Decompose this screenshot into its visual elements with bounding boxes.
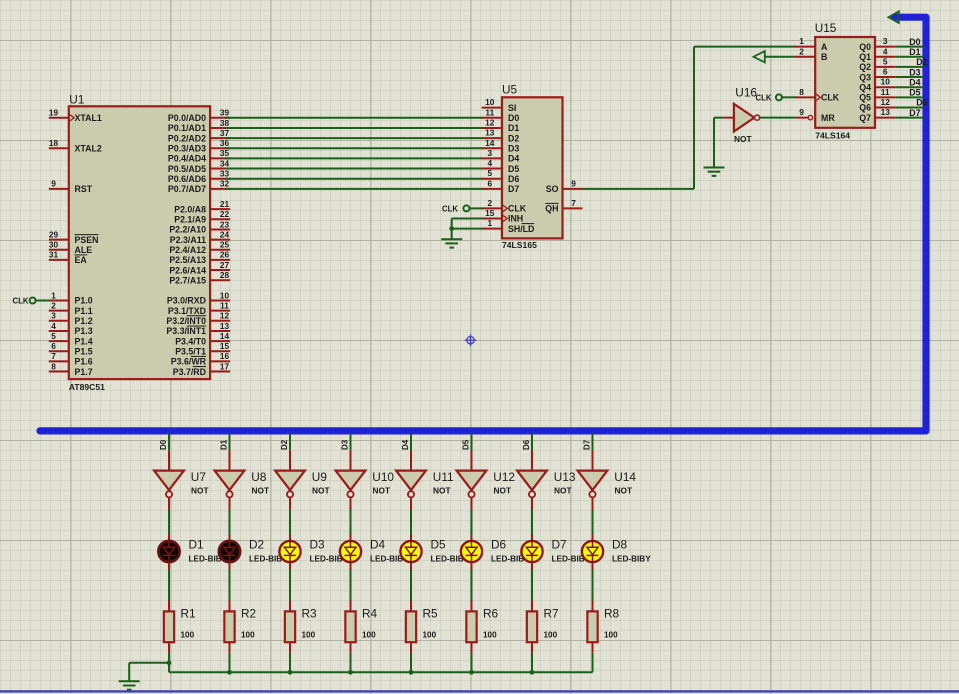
wire U1 P0.6 to U5 D6: [225, 178, 483, 180]
U15 pin 13 Q7 stub: [875, 117, 895, 119]
svg-text:100: 100: [544, 630, 558, 639]
svg-text:D0: D0: [508, 113, 519, 123]
U1 pin 23 P2.2/A10 stub: [210, 228, 230, 230]
svg-text:P3.3/INT1: P3.3/INT1: [166, 326, 206, 336]
ground below U16: [704, 167, 725, 169]
junction R1: [167, 660, 172, 665]
wire resistor R3 to ground rail: [289, 642, 291, 653]
U1 pin 14 P3.4/T0 stub: [210, 340, 230, 342]
svg-text:R2: R2: [241, 607, 256, 621]
svg-text:8: 8: [51, 361, 56, 371]
junction at SH/LD wire: [449, 226, 454, 231]
U1 pin 6 P1.5 stub: [49, 350, 69, 352]
gate U14 NOT triangle: [578, 471, 608, 491]
wire gate U8 to LED D2: [229, 498, 231, 510]
svg-text:3: 3: [51, 311, 56, 321]
svg-text:P3.2/INT0: P3.2/INT0: [166, 316, 206, 326]
svg-text:11: 11: [220, 300, 229, 310]
svg-text:NOT: NOT: [312, 486, 330, 496]
svg-text:D3: D3: [909, 67, 920, 77]
wire CLK terminal to U5 CLK: [469, 207, 482, 209]
svg-text:R8: R8: [604, 607, 620, 621]
svg-text:D8: D8: [612, 537, 628, 551]
chip U5 74LS165 body: [502, 97, 563, 238]
svg-text:33: 33: [220, 169, 230, 179]
U16 output bubble: [755, 115, 760, 120]
svg-text:22: 22: [220, 209, 230, 219]
svg-text:CLK: CLK: [755, 94, 771, 103]
svg-text:15: 15: [220, 341, 230, 351]
ground rail wire: [129, 662, 169, 664]
U1 pin 28 P2.7/A15 stub: [210, 279, 230, 281]
svg-text:AT89C51: AT89C51: [69, 382, 105, 392]
gate U13 NOT triangle: [517, 471, 547, 491]
svg-text:U1: U1: [69, 93, 84, 107]
LED D3 body: [279, 541, 300, 562]
U1 pin 33 P0.6/AD6 stub: [210, 178, 230, 180]
wire Q6 to bus: [895, 107, 923, 109]
svg-text:13: 13: [881, 107, 891, 117]
wire gate U9 to LED D3: [289, 498, 291, 510]
wire gate U10 to LED D4: [350, 498, 352, 510]
svg-text:P0.5/AD5: P0.5/AD5: [168, 164, 206, 174]
U13 output bubble: [529, 491, 535, 497]
U9 output bubble: [287, 491, 293, 497]
wire LED D2 to resistor R2: [229, 563, 231, 570]
svg-text:U5: U5: [502, 83, 518, 97]
svg-text:XTAL1: XTAL1: [75, 113, 102, 123]
ground below U5: [441, 238, 462, 240]
U14 output bubble: [589, 491, 595, 497]
gate U12 NOT triangle: [457, 471, 487, 491]
LED D4 body: [340, 541, 361, 562]
svg-text:10: 10: [220, 290, 230, 300]
U1 pin 38 P0.1/AD1 stub: [210, 127, 230, 129]
wire Q2 to bus: [895, 66, 923, 68]
svg-text:36: 36: [220, 138, 230, 148]
U1 pin 13 P3.3/INT1 stub: [210, 330, 230, 332]
U1 pin 4 P1.3 stub: [49, 330, 69, 332]
svg-text:D7: D7: [508, 184, 519, 194]
U15 pin 11 Q5 stub: [875, 96, 895, 98]
svg-text:P3.0/RXD: P3.0/RXD: [167, 296, 206, 306]
wire resistor R8 to ground rail: [592, 642, 594, 653]
svg-text:26: 26: [220, 250, 230, 260]
svg-text:P1.7: P1.7: [75, 367, 93, 377]
svg-text:25: 25: [220, 240, 230, 250]
svg-text:INH: INH: [508, 214, 523, 224]
svg-text:P2.4/A12: P2.4/A12: [169, 245, 206, 255]
svg-text:U8: U8: [251, 470, 267, 484]
svg-text:D6: D6: [491, 537, 507, 551]
LED D4 diode symbol: [345, 540, 357, 563]
svg-text:D6: D6: [522, 439, 531, 450]
svg-text:D5: D5: [431, 537, 447, 551]
U5 pin 5 D6 stub: [482, 178, 502, 180]
wire gate U12 to LED D6: [471, 498, 473, 510]
svg-text:D7: D7: [582, 439, 591, 450]
svg-text:2: 2: [51, 300, 56, 310]
chip U15 74LS164 body: [815, 37, 875, 128]
wire U5 SH/LD to ground: [452, 228, 483, 230]
svg-text:7: 7: [51, 351, 56, 361]
wire U5 INH to ground: [452, 218, 483, 220]
svg-text:P1.6: P1.6: [75, 357, 93, 367]
U12 output bubble: [468, 491, 474, 497]
svg-text:1: 1: [799, 36, 804, 46]
svg-text:74LS164: 74LS164: [815, 130, 850, 140]
U1 pin 9 RST stub: [49, 188, 69, 190]
svg-text:MR: MR: [821, 113, 835, 123]
svg-text:P2.7/A15: P2.7/A15: [169, 275, 206, 285]
wire bus tap D1 down to gate U8: [229, 433, 231, 450]
U15 pin 3 Q0 stub: [875, 46, 895, 48]
svg-text:D0: D0: [909, 37, 920, 47]
svg-text:24: 24: [220, 229, 230, 239]
U5 INH clock marker: [503, 215, 507, 221]
wire resistor R6 to ground rail: [471, 642, 473, 653]
svg-text:100: 100: [423, 630, 437, 639]
svg-text:2: 2: [799, 46, 804, 56]
svg-text:D7: D7: [909, 108, 920, 118]
svg-text:R5: R5: [423, 607, 439, 621]
U1 pin 29 PSEN stub: [49, 239, 69, 241]
U1 pin 8 P1.7 stub: [49, 371, 69, 373]
wire gate U14 to LED D8: [592, 498, 594, 510]
resistor R2 body: [224, 611, 234, 642]
svg-text:P3.7/RD: P3.7/RD: [173, 367, 206, 377]
wire U1 P0.7 to U5 D7: [225, 188, 483, 190]
svg-text:P0.0/AD0: P0.0/AD0: [168, 113, 206, 123]
svg-text:Q3: Q3: [859, 72, 871, 82]
U1 pin 32 P0.7/AD7 stub: [210, 188, 230, 190]
wire gate U7 to LED D1: [168, 498, 170, 510]
U1 pin 15 P3.5/T1 stub: [210, 350, 230, 352]
U1 pin 34 P0.5/AD5 stub: [210, 168, 230, 170]
gate U11 NOT triangle: [396, 471, 426, 491]
wire LED D6 to resistor R6: [471, 563, 473, 570]
svg-text:11: 11: [485, 107, 494, 117]
svg-text:23: 23: [220, 219, 230, 229]
wire U5 SO right: [583, 188, 695, 190]
U15 pin 9 MR stub with bubble: [796, 117, 808, 119]
U5 pin 12 D1 stub: [482, 127, 502, 129]
resistor R1 body: [164, 611, 174, 642]
LED D8 body: [582, 541, 603, 562]
svg-text:28: 28: [220, 270, 230, 280]
LED D5 body: [400, 541, 421, 562]
svg-text:4: 4: [883, 46, 888, 56]
gate U8 NOT triangle: [215, 471, 245, 491]
svg-text:4: 4: [487, 158, 492, 168]
wire CLK terminal to U1 pin1: [36, 300, 50, 302]
svg-text:18: 18: [49, 138, 59, 148]
svg-text:U10: U10: [372, 470, 394, 484]
svg-text:P0.7/AD7: P0.7/AD7: [168, 184, 206, 194]
svg-text:13: 13: [220, 321, 230, 331]
resistor R8 body: [587, 611, 597, 642]
svg-text:P3.5/T1: P3.5/T1: [175, 346, 206, 356]
svg-text:XTAL2: XTAL2: [75, 143, 102, 153]
svg-text:1: 1: [487, 218, 492, 228]
U1 pin 10 P3.0/RXD stub: [210, 300, 230, 302]
U15 pin 6 Q3 stub: [875, 76, 895, 78]
svg-text:74LS165: 74LS165: [502, 240, 537, 250]
wire horizontal to U15 A: [694, 46, 795, 48]
svg-text:P2.5/A13: P2.5/A13: [169, 255, 206, 265]
gate U9 NOT triangle: [275, 471, 305, 491]
svg-text:PSEN: PSEN: [75, 235, 99, 245]
svg-text:35: 35: [220, 148, 230, 158]
U10 output bubble: [347, 491, 353, 497]
svg-text:NOT: NOT: [252, 486, 270, 496]
wire U1 P0.4 to U5 D4: [225, 157, 483, 159]
U1 pin 24 P2.3/A11 stub: [210, 239, 230, 241]
svg-text:Q6: Q6: [859, 103, 871, 113]
LED D1 diode symbol: [163, 540, 175, 563]
svg-text:U16: U16: [735, 86, 757, 100]
svg-text:SO: SO: [546, 184, 559, 194]
svg-text:14: 14: [220, 331, 230, 341]
U1 pin 39 P0.0/AD0 stub: [210, 117, 230, 119]
svg-text:P1.1: P1.1: [75, 306, 93, 316]
svg-text:P2.0/A8: P2.0/A8: [174, 204, 206, 214]
resistor R6 body: [466, 611, 476, 642]
U1 pin 22 P2.1/A9 stub: [210, 218, 230, 220]
LED D6 body: [461, 541, 482, 562]
svg-text:Q4: Q4: [859, 82, 871, 92]
resistor R4 body: [345, 611, 355, 642]
svg-text:100: 100: [604, 630, 618, 639]
U1 pin 5 P1.4 stub: [49, 340, 69, 342]
sheet origin marker: [465, 334, 477, 346]
resistor R7 body: [527, 611, 537, 642]
wire U1 P0.1 to U5 D1: [225, 127, 483, 129]
wire Q5 to bus: [895, 96, 923, 98]
svg-text:U9: U9: [312, 470, 327, 484]
svg-text:B: B: [821, 52, 827, 62]
wire gate U13 to LED D7: [531, 498, 533, 510]
svg-text:9: 9: [799, 107, 804, 117]
svg-text:P1.0: P1.0: [75, 296, 93, 306]
svg-text:U12: U12: [493, 470, 515, 484]
bottom edge line: [0, 690, 959, 692]
svg-text:P0.4/AD4: P0.4/AD4: [168, 154, 206, 164]
U1 pin 35 P0.4/AD4 stub: [210, 157, 230, 159]
wire resistor R5 to ground rail: [410, 642, 412, 653]
wire bus tap D4 down to gate U11: [410, 433, 412, 450]
svg-text:R4: R4: [362, 607, 378, 621]
wire bus tap D7 down to gate U14: [592, 433, 594, 450]
wire bus tap D0 down to gate U7: [168, 433, 170, 450]
U1 XTAL1 clock marker: [70, 115, 74, 121]
wire Q3 to bus: [895, 76, 923, 78]
U5 pin 7 QH stub: [563, 207, 583, 209]
svg-text:CLK: CLK: [508, 204, 527, 214]
LED D6 diode symbol: [466, 540, 478, 563]
svg-text:19: 19: [49, 108, 59, 118]
wire U16 input to ground: [714, 117, 724, 119]
junction R3: [288, 670, 293, 675]
U1 pin 36 P0.3/AD3 stub: [210, 147, 230, 149]
svg-text:39: 39: [220, 108, 230, 118]
resistor R5 body: [406, 611, 416, 642]
wire LED D8 to resistor R8: [592, 563, 594, 570]
junction R5: [409, 670, 414, 675]
LED D8 diode symbol: [587, 540, 599, 563]
svg-text:P1.2: P1.2: [75, 316, 93, 326]
resistor R3 body: [285, 611, 295, 642]
svg-text:U15: U15: [815, 21, 837, 35]
svg-text:NOT: NOT: [494, 486, 512, 496]
svg-text:R6: R6: [483, 607, 499, 621]
wire Q7 to bus: [895, 117, 923, 119]
wire Q4 to bus: [895, 86, 923, 88]
U1 pin 25 P2.4/A12 stub: [210, 249, 230, 251]
wire resistor R2 to ground rail: [229, 642, 231, 653]
U5 pin 9 SO stub: [563, 188, 583, 190]
wire CLK terminal to U15 CLK: [782, 96, 796, 98]
LED D3 diode symbol: [284, 540, 296, 563]
U15 pin 1 A stub: [794, 46, 815, 48]
svg-text:15: 15: [485, 208, 495, 218]
svg-text:D5: D5: [461, 439, 470, 450]
U1 pin 31 EA stub: [49, 259, 69, 261]
svg-text:10: 10: [881, 77, 891, 87]
U11 output bubble: [408, 491, 414, 497]
wire Q0 to bus: [895, 46, 923, 48]
svg-text:D2: D2: [249, 537, 264, 551]
svg-text:12: 12: [881, 97, 891, 107]
wire U15 B with arrow tail: [765, 56, 795, 58]
svg-text:D2: D2: [508, 133, 519, 143]
svg-text:D4: D4: [909, 77, 920, 87]
U1 pin 37 P0.2/AD2 stub: [210, 137, 230, 139]
svg-text:100: 100: [483, 630, 497, 639]
wire resistor R7 to ground rail: [531, 642, 533, 653]
svg-text:P2.2/A10: P2.2/A10: [169, 225, 206, 235]
U1 pin 1 P1.0 stub: [49, 300, 69, 302]
LED D2 body: [219, 541, 240, 562]
junction R7: [530, 670, 535, 675]
svg-text:CLK: CLK: [12, 297, 28, 306]
svg-text:NOT: NOT: [373, 486, 391, 496]
svg-text:D2: D2: [916, 57, 927, 67]
U5 pin 3 D4 stub: [482, 157, 502, 159]
svg-text:10: 10: [485, 97, 495, 107]
svg-text:Q2: Q2: [859, 62, 871, 72]
svg-text:U7: U7: [191, 470, 206, 484]
U1 pin 11 P3.1/TXD stub: [210, 310, 230, 312]
U15 pin 8 CLK stub: [795, 96, 815, 98]
svg-text:100: 100: [181, 630, 195, 639]
chip U1 AT89C51 body: [69, 106, 210, 379]
svg-text:P0.1/AD1: P0.1/AD1: [168, 123, 206, 133]
wire LED D7 to resistor R7: [531, 563, 533, 570]
svg-text:P0.3/AD3: P0.3/AD3: [168, 143, 206, 153]
U5 pin 10 SI stub: [482, 107, 502, 109]
junction R4: [348, 670, 353, 675]
svg-text:100: 100: [362, 630, 376, 639]
svg-text:5: 5: [487, 168, 492, 178]
U5 pin 2 CLK stub: [482, 207, 502, 209]
U1 pin 17 P3.7/RD stub: [210, 371, 230, 373]
svg-text:5: 5: [883, 56, 888, 66]
svg-text:D1: D1: [219, 439, 228, 450]
U5 pin 11 D0 stub: [482, 117, 502, 119]
svg-text:P2.6/A14: P2.6/A14: [169, 265, 206, 275]
svg-text:D6: D6: [508, 174, 519, 184]
svg-text:31: 31: [49, 250, 59, 260]
wire vertical INH/SHLD down: [451, 219, 453, 240]
wire LED D3 to resistor R3: [289, 563, 291, 570]
svg-text:12: 12: [485, 117, 495, 127]
wire resistor R4 to ground rail: [350, 642, 352, 653]
svg-text:D4: D4: [370, 537, 386, 551]
svg-text:D4: D4: [508, 154, 519, 164]
svg-text:3: 3: [487, 148, 492, 158]
svg-text:9: 9: [571, 178, 576, 188]
svg-text:3: 3: [883, 36, 888, 46]
svg-text:SH/LD: SH/LD: [508, 224, 534, 234]
gate U10 NOT triangle: [336, 471, 366, 491]
U15 pin 10 Q4 stub: [875, 86, 895, 88]
svg-text:D4: D4: [401, 439, 410, 450]
svg-text:SI: SI: [508, 103, 516, 113]
wire bus tap D5 down to gate U12: [471, 433, 473, 450]
svg-text:7: 7: [571, 198, 576, 208]
U5 CLK clock marker: [503, 205, 508, 212]
svg-text:NOT: NOT: [433, 486, 451, 496]
U5 pin 15 INH stub: [482, 218, 502, 220]
U1 pin 2 P1.1 stub: [49, 310, 69, 312]
svg-text:9: 9: [51, 179, 56, 189]
svg-text:12: 12: [220, 311, 230, 321]
U1 pin 18 XTAL2 stub: [49, 147, 69, 149]
svg-text:NOT: NOT: [554, 486, 572, 496]
svg-text:NOT: NOT: [615, 486, 633, 496]
junction R6: [469, 670, 474, 675]
svg-text:4: 4: [51, 321, 56, 331]
LED D1 body: [158, 541, 179, 562]
svg-text:Q0: Q0: [859, 42, 871, 52]
svg-text:R3: R3: [302, 607, 318, 621]
svg-text:P3.6/WR: P3.6/WR: [171, 357, 207, 367]
wire U1 P0.3 to U5 D3: [225, 147, 483, 149]
wire U1 P0.5 to U5 D5: [225, 168, 483, 170]
U8 output bubble: [226, 491, 232, 497]
U1 pin 12 P3.2/INT0 stub: [210, 320, 230, 322]
ground (bottom left): [128, 663, 130, 681]
svg-text:D2: D2: [280, 439, 289, 450]
svg-text:U11: U11: [433, 470, 454, 484]
wire U1 P0.2 to U5 D2: [225, 137, 483, 139]
wire gate U11 to LED D5: [410, 498, 412, 510]
U5 pin 14 D3 stub: [482, 147, 502, 149]
junction R2: [227, 670, 232, 675]
svg-text:27: 27: [220, 260, 230, 270]
svg-text:P2.1/A9: P2.1/A9: [174, 215, 206, 225]
svg-text:U13: U13: [554, 470, 576, 484]
svg-text:P0.6/AD6: P0.6/AD6: [168, 174, 206, 184]
LED D7 diode symbol: [526, 540, 538, 563]
U5 pin 1 SH/LD stub: [482, 228, 502, 230]
svg-text:CLK: CLK: [821, 93, 840, 103]
U5 pin 4 D5 stub: [482, 168, 502, 170]
gate U7 NOT triangle: [154, 471, 184, 491]
svg-text:D7: D7: [552, 537, 567, 551]
wire LED D4 to resistor R4: [350, 563, 352, 570]
